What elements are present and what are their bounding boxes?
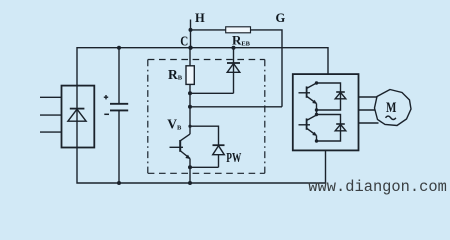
svg-text:M: M bbox=[386, 100, 396, 116]
wire 3-phase input line 1 bbox=[40, 96, 62, 98]
svg-text:G: G bbox=[276, 11, 286, 25]
motor M bbox=[375, 90, 412, 126]
diode D2 (across Q1) bbox=[317, 83, 346, 110]
capacitor polarity + bbox=[104, 95, 108, 99]
wire DC+ bus: rectifier top to inverter top bbox=[77, 48, 328, 86]
wire H to resistor REB bbox=[191, 29, 227, 31]
svg-text:PW: PW bbox=[226, 150, 241, 165]
node H stub bbox=[190, 20, 192, 48]
transistor VB (brake chopper) bbox=[170, 134, 191, 183]
svg-text:www.diangon.com: www.diangon.com bbox=[308, 178, 447, 196]
wire inverter to motor phase 1 bbox=[359, 96, 378, 98]
IGBT Q1 (top) bbox=[299, 83, 317, 110]
wire REB to G corner, down to chopper output bbox=[251, 30, 283, 107]
dashed enclosure right edge bbox=[264, 60, 266, 174]
rectifier bridge box bbox=[62, 86, 95, 148]
resistor REB bbox=[226, 27, 251, 33]
svg-text:RB: RB bbox=[168, 67, 183, 82]
wire RB bottom to D1 bottom bbox=[190, 92, 234, 94]
wire 3-phase input line 2 bbox=[40, 114, 62, 116]
svg-text:H: H bbox=[195, 11, 205, 25]
svg-text:REB: REB bbox=[232, 32, 251, 47]
wire inverter to motor phase 2 bbox=[359, 109, 376, 111]
diode inside rectifier bbox=[68, 86, 86, 147]
wire chopper collector to G vertical bbox=[190, 106, 282, 108]
svg-text:VB: VB bbox=[167, 117, 182, 132]
dashed enclosure bottom edge bbox=[148, 172, 265, 174]
wire inverter to motor phase 3 bbox=[359, 122, 379, 124]
diode D1 (across RB) bbox=[227, 48, 240, 94]
svg-text:C: C bbox=[180, 34, 188, 49]
wire Q1 emitter to Q2 collector bbox=[316, 110, 318, 115]
junction node dots bbox=[117, 28, 318, 185]
motor tilde bbox=[386, 116, 396, 119]
diode PW (freewheel) bbox=[190, 126, 225, 167]
wire DC- bus: rectifier bottom to inverter bottom bbox=[77, 148, 326, 184]
wire 3-phase input line 3 bbox=[40, 131, 62, 133]
capacitor C (DC link) bbox=[104, 48, 128, 183]
diode D3 (across Q2) bbox=[317, 115, 346, 142]
inverter box bbox=[293, 74, 359, 150]
dashed enclosure left edge bbox=[147, 60, 149, 174]
IGBT Q2 (bottom) bbox=[299, 115, 317, 141]
resistor RB bbox=[186, 48, 194, 134]
dashed enclosure (brake unit) top edge bbox=[148, 59, 265, 61]
capacitor polarity - bbox=[104, 113, 109, 115]
